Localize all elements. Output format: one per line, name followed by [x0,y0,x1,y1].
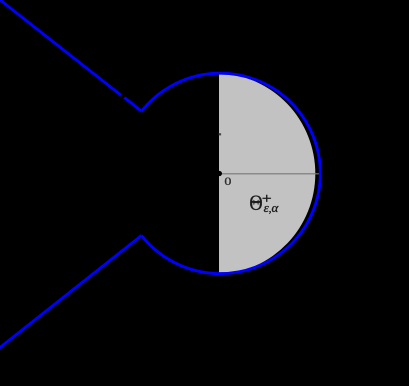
svg-text:ε,α: ε,α [264,200,280,215]
svg-text:Θ: Θ [249,191,262,215]
svg-text:0: 0 [224,175,231,188]
